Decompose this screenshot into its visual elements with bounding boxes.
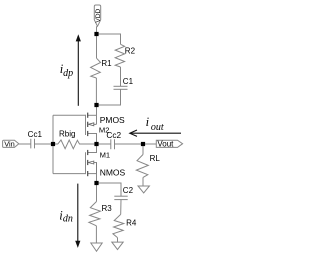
wire Vin to Cc1 bbox=[19, 143, 31, 145]
PMOS M2 bulk lead with arrow bbox=[94, 123, 97, 125]
wire top rail to R2 branch bbox=[97, 34, 121, 44]
NMOS M1 channel segment drain bbox=[87, 150, 89, 155]
ground (R4) bbox=[112, 242, 123, 250]
resistor R2 bbox=[115, 44, 124, 67]
wire R3 to ground bbox=[95, 226, 97, 243]
svg-text:C2: C2 bbox=[123, 186, 134, 195]
resistor R1 bbox=[91, 58, 101, 78]
Vout port symbol bbox=[156, 140, 182, 147]
PMOS M2 channel segment drain bbox=[87, 113, 89, 118]
capacitor C2 bbox=[114, 195, 127, 197]
node dots bbox=[51, 32, 145, 185]
PMOS M2 drain lead bbox=[88, 134, 97, 145]
wire R1 to node2 bbox=[95, 78, 97, 105]
svg-text:Cc2: Cc2 bbox=[106, 130, 121, 140]
svg-text:Vin: Vin bbox=[4, 139, 15, 148]
wire node3 to Cc2 bbox=[97, 143, 111, 145]
current arrow i_dp bbox=[77, 40, 79, 106]
wire Cc2 to node5 bbox=[115, 143, 144, 145]
svg-text:Cc1: Cc1 bbox=[28, 130, 43, 139]
capacitor Cc1 bbox=[30, 139, 32, 149]
bias box left vertical wire bbox=[52, 115, 54, 173]
svg-text:NMOS: NMOS bbox=[100, 167, 126, 177]
VDD port symbol bbox=[94, 5, 100, 26]
capacitor C1 bbox=[114, 85, 128, 87]
svg-text:R4: R4 bbox=[126, 219, 137, 228]
ground (R3) bbox=[91, 243, 102, 251]
svg-text:VDD: VDD bbox=[95, 8, 102, 22]
NMOS gate wire bbox=[53, 173, 86, 175]
svg-text:M1: M1 bbox=[100, 150, 111, 159]
svg-text:PMOS: PMOS bbox=[100, 115, 125, 125]
ground (RL) bbox=[138, 186, 149, 193]
NMOS M1 gate bar bbox=[85, 152, 87, 174]
wire node5 to RL bbox=[142, 144, 144, 155]
PMOS gate wire bbox=[53, 114, 86, 116]
wire R2 to C1 bbox=[120, 67, 122, 86]
transistor symbol dark parts bbox=[86, 113, 88, 177]
svg-text:i: i bbox=[146, 115, 150, 129]
svg-text:Rbig: Rbig bbox=[59, 129, 75, 138]
svg-text:C1: C1 bbox=[123, 77, 134, 86]
PMOS M2 source lead bbox=[88, 114, 97, 116]
current arrow i_out bbox=[130, 132, 181, 134]
svg-text:RL: RL bbox=[150, 154, 161, 163]
NMOS M1 channel segment source bbox=[87, 171, 89, 176]
svg-text:R1: R1 bbox=[101, 59, 112, 68]
svg-text:out: out bbox=[151, 122, 164, 133]
svg-text:dp: dp bbox=[63, 68, 73, 79]
resistor RL bbox=[136, 155, 148, 178]
current labels (italic math) bbox=[59, 62, 164, 224]
capacitor Cc2 bbox=[110, 139, 112, 149]
svg-text:R2: R2 bbox=[125, 47, 136, 56]
wire node2 to PMOS source bbox=[96, 105, 98, 124]
current arrow i_dn bbox=[77, 184, 79, 242]
node VDD rail bbox=[94, 32, 98, 36]
wire RL to ground bbox=[142, 177, 144, 186]
node PMOS source bbox=[94, 103, 98, 107]
NMOS M1 drain lead bbox=[88, 146, 97, 153]
Vin port symbol bbox=[3, 140, 19, 147]
wire Cc1 to node4 bbox=[35, 143, 54, 145]
current annotation arrows bbox=[75, 34, 181, 248]
wire C2 to R4 bbox=[120, 200, 122, 215]
wire node6 to R3 bbox=[96, 183, 98, 202]
wire C1 to node2 bbox=[97, 89, 121, 105]
resistor R3 bbox=[89, 202, 101, 226]
NMOS M1 channel segment bulk bbox=[87, 160, 89, 165]
node output/drain bbox=[94, 142, 98, 146]
PMOS M2 gate bar bbox=[85, 115, 87, 135]
svg-text:R3: R3 bbox=[102, 204, 113, 213]
svg-text:Vout: Vout bbox=[157, 140, 174, 149]
wire node6 to C2 branch bbox=[97, 183, 122, 196]
PMOS M2 channel segment bulk bbox=[87, 122, 89, 127]
node NMOS source bbox=[94, 181, 98, 185]
wire NMOS source to node6 bbox=[96, 174, 98, 183]
node Vout/RL bbox=[141, 142, 145, 146]
wire node5 to Vout tag bbox=[143, 143, 156, 145]
resistor Rbig bbox=[53, 140, 95, 149]
wire node1 to R1 bbox=[96, 34, 98, 58]
NMOS M1 bulk lead with arrow bbox=[94, 163, 97, 174]
resistor R4 bbox=[113, 214, 124, 237]
NMOS M1 source lead bbox=[88, 173, 97, 175]
node input gate bbox=[51, 142, 55, 146]
svg-text:dn: dn bbox=[63, 214, 73, 225]
PMOS M2 channel segment source bbox=[87, 131, 89, 136]
wire VDD tag to node bbox=[96, 26, 98, 33]
wire R4 to ground bbox=[117, 238, 119, 243]
